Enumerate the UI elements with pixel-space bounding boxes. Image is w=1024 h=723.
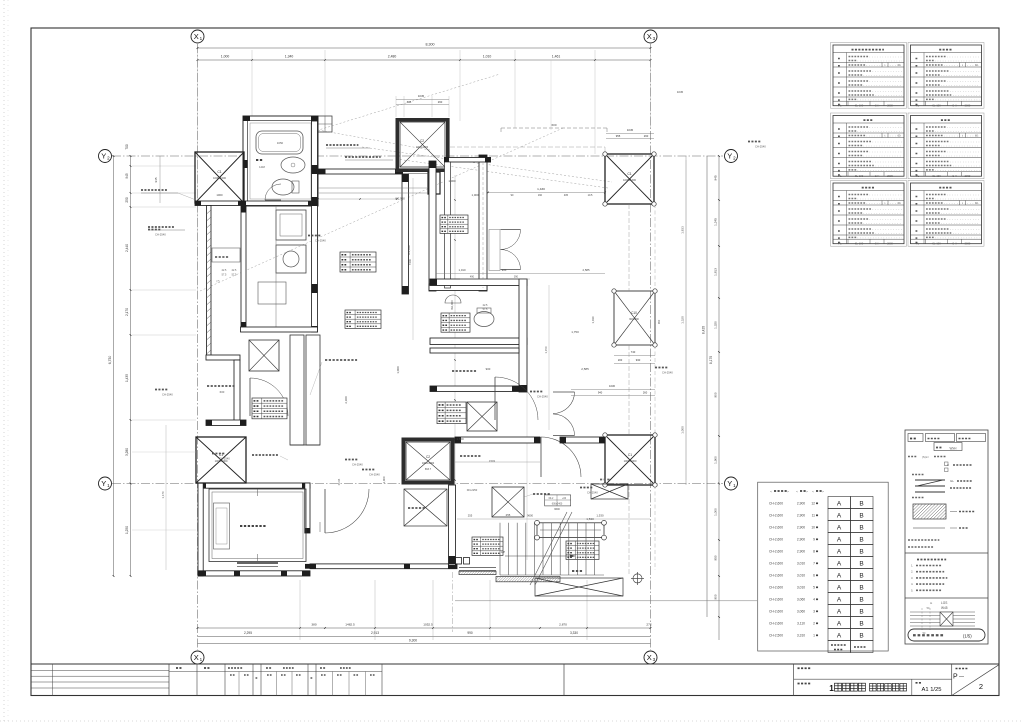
title block left revision rows xyxy=(31,669,169,671)
title block approval cells xyxy=(196,664,198,696)
C2 notch below xyxy=(428,172,440,194)
svg-text:57.5: 57.5 xyxy=(222,274,227,277)
vestibule double door xyxy=(501,230,521,250)
extension lines left lower xyxy=(132,451,196,453)
toilet room label box xyxy=(441,313,470,332)
svg-text:1,750: 1,750 xyxy=(571,330,579,334)
EV label xyxy=(240,525,266,527)
inspection hatch near counter xyxy=(249,340,279,371)
svg-text:A: A xyxy=(837,573,842,580)
svg-text:10.5: 10.5 xyxy=(588,194,593,197)
svg-text:SL-100: SL-100 xyxy=(932,242,941,246)
svg-text:1482.5: 1482.5 xyxy=(345,623,355,627)
corridor right wall upper xyxy=(402,174,409,294)
dimension below C10 xyxy=(614,355,655,357)
linen room walls xyxy=(430,348,519,353)
title block divider xyxy=(563,664,565,696)
hall inspection hatch bottom xyxy=(492,487,524,517)
eaves dashed line top right xyxy=(501,127,607,129)
svg-text:UP: UP xyxy=(501,550,505,554)
svg-text:Y: Y xyxy=(101,152,106,161)
svg-text:3,010: 3,010 xyxy=(797,586,805,590)
svg-text:1,340: 1,340 xyxy=(285,55,294,59)
stair treads xyxy=(499,523,501,575)
dimension line above toilet room xyxy=(436,273,605,275)
interior vertical dim x455 xyxy=(454,175,456,520)
finish schedule table office xyxy=(831,113,907,179)
svg-text:>: > xyxy=(787,490,789,494)
floor height table frame xyxy=(758,482,889,651)
svg-text:900: 900 xyxy=(502,268,507,272)
interior dim line hall xyxy=(455,461,540,463)
svg-text:CH-2,600: CH-2,600 xyxy=(769,622,783,626)
svg-text:C-H: C-H xyxy=(952,174,957,178)
svg-text:1,250: 1,250 xyxy=(125,526,129,534)
svg-text:3: 3 xyxy=(813,610,815,614)
svg-text:LGS: LGS xyxy=(941,601,947,605)
bathtub xyxy=(256,131,303,154)
svg-text:C2: C2 xyxy=(426,455,430,459)
ceiling height note xyxy=(212,453,225,455)
pump crossed box upper xyxy=(591,484,628,499)
kitchen step wall horizontal xyxy=(206,355,240,360)
ceiling height note xyxy=(148,229,161,231)
left inner dim line x166 xyxy=(165,425,167,570)
svg-text:B: B xyxy=(859,609,863,616)
svg-text:1.: 1. xyxy=(911,564,914,568)
svg-text:7: 7 xyxy=(813,562,815,566)
svg-text:SL-100: SL-100 xyxy=(855,174,864,178)
right inner dimension line xyxy=(685,156,687,485)
leader diagonal dotted lines upper area xyxy=(244,74,500,153)
svg-text:900: 900 xyxy=(486,367,491,371)
kitchen inner partition wall xyxy=(241,206,246,331)
svg-text:X: X xyxy=(647,653,652,662)
svg-text:X: X xyxy=(194,32,199,41)
svg-text:B: B xyxy=(859,549,863,556)
svg-text:260: 260 xyxy=(438,100,443,104)
svg-text:3,310: 3,310 xyxy=(797,634,805,638)
legend divider 1 xyxy=(905,552,988,554)
svg-text:CH-2,600: CH-2,600 xyxy=(769,526,783,530)
svg-text:1650: 1650 xyxy=(277,141,284,145)
grid bubble X3 bottom xyxy=(644,651,657,664)
washbasin xyxy=(281,157,305,173)
svg-text:A: A xyxy=(837,585,842,592)
svg-text:CH-2540: CH-2540 xyxy=(587,491,598,495)
svg-text:2,870: 2,870 xyxy=(559,623,567,627)
svg-text:A: A xyxy=(837,513,842,520)
svg-text:8,300: 8,300 xyxy=(426,43,435,47)
svg-text:2,480: 2,480 xyxy=(388,55,397,59)
title block right section xyxy=(793,664,795,696)
svg-text:A: A xyxy=(837,549,842,556)
svg-text:B: B xyxy=(859,513,863,520)
svg-text:8,420: 8,420 xyxy=(702,326,706,334)
grid bubble Y2 left xyxy=(99,150,112,163)
unit bath room walls xyxy=(243,116,318,206)
svg-text:>: > xyxy=(822,490,824,494)
finish schedule table entrance xyxy=(831,43,907,109)
extension lines from left dims xyxy=(132,165,196,167)
svg-text:1,900: 1,900 xyxy=(714,456,718,464)
svg-text:A: A xyxy=(837,501,842,508)
svg-text:663.7: 663.7 xyxy=(425,468,432,471)
svg-text:1000x1600: 1000x1600 xyxy=(623,178,636,182)
EV shaft walls xyxy=(198,483,310,488)
washroom crossed box xyxy=(404,489,447,526)
svg-text:3,060: 3,060 xyxy=(797,598,805,602)
floor table AB grid xyxy=(828,497,851,509)
bottom second dimension line xyxy=(198,636,651,638)
kitchen lower cabinet xyxy=(258,282,286,304)
linen lower label xyxy=(460,455,481,457)
svg-text:945: 945 xyxy=(125,173,129,179)
svg-text:255: 255 xyxy=(468,514,473,518)
left sub dimension line xyxy=(159,156,161,203)
svg-text:>: > xyxy=(806,490,808,494)
svg-text:(S)L=: (S)L= xyxy=(922,455,929,459)
top segment dimension line xyxy=(198,59,651,61)
svg-text:57.5: 57.5 xyxy=(232,274,237,277)
entrance door jamb blocks xyxy=(456,558,462,565)
svg-text:1503: 1503 xyxy=(489,459,495,463)
bottom overall dimension 9,300 xyxy=(198,643,651,645)
svg-text:2.: 2. xyxy=(911,570,914,574)
column C2 top xyxy=(396,118,450,122)
svg-text:5.: 5. xyxy=(911,588,914,592)
unit bath interior outline xyxy=(250,123,311,199)
svg-text:C-H: C-H xyxy=(952,104,957,108)
dimension 1,430 between vestibule and C1 xyxy=(488,192,605,194)
kitchen step wall vertical xyxy=(234,360,240,423)
svg-text:3,280: 3,280 xyxy=(125,448,129,456)
svg-text:1,435: 1,435 xyxy=(125,374,129,382)
grid bubble X1 top xyxy=(191,30,204,43)
left overall dimension 6,730 xyxy=(113,156,115,576)
entrance sill lines xyxy=(459,567,496,569)
svg-text:+00: +00 xyxy=(562,497,567,500)
svg-text:405: 405 xyxy=(564,194,569,197)
svg-text:3,010: 3,010 xyxy=(797,562,805,566)
toilet room walls xyxy=(430,279,527,286)
svg-text:2,585: 2,585 xyxy=(581,367,589,371)
svg-text:C10: C10 xyxy=(631,311,637,315)
svg-text:1,010: 1,010 xyxy=(459,268,466,272)
svg-text:8: 8 xyxy=(813,550,815,554)
svg-text:B: B xyxy=(859,537,863,544)
finish schedule table linen xyxy=(908,43,984,109)
bottom interior dim line xyxy=(457,518,650,520)
svg-text:2000: 2000 xyxy=(965,104,971,108)
dimension above C2 xyxy=(396,99,449,101)
svg-text:1,320: 1,320 xyxy=(714,321,718,329)
linen room lower walls xyxy=(455,437,540,443)
svg-text:B: B xyxy=(859,573,863,580)
svg-text:CH-2540: CH-2540 xyxy=(162,393,173,397)
vent note left xyxy=(148,226,174,228)
svg-text:5: 5 xyxy=(813,586,815,590)
grid line X1 xyxy=(197,44,199,650)
sink note xyxy=(345,156,381,158)
wall centerline extension down xyxy=(452,572,454,632)
svg-text:A: A xyxy=(837,525,842,532)
svg-text:695: 695 xyxy=(407,100,412,104)
svg-text:2,295: 2,295 xyxy=(244,631,252,635)
top overall dimension 8,300 xyxy=(198,47,651,49)
svg-text:260: 260 xyxy=(644,134,649,138)
svg-text:CH-2540: CH-2540 xyxy=(755,145,766,149)
legend single line sample xyxy=(913,527,945,529)
svg-text:2,900: 2,900 xyxy=(797,526,805,530)
dimension extension lines top xyxy=(197,50,199,290)
svg-text:1,000: 1,000 xyxy=(448,179,456,183)
scale cell xyxy=(911,679,913,695)
svg-text:1,500: 1,500 xyxy=(456,437,464,441)
ceiling height note xyxy=(748,141,761,143)
monkey note xyxy=(326,144,358,146)
svg-text:1000: 1000 xyxy=(216,193,223,197)
dimension above C1 top-right xyxy=(606,133,654,135)
linen room label xyxy=(452,370,476,372)
svg-text:1,030: 1,030 xyxy=(591,316,595,323)
svg-text:CH-2540: CH-2540 xyxy=(315,239,326,243)
back counter label xyxy=(207,385,235,387)
svg-text:740: 740 xyxy=(631,350,636,354)
svg-text:CH-2,600: CH-2,600 xyxy=(769,502,783,506)
EV center lines xyxy=(257,489,259,496)
svg-text:CH-2540: CH-2540 xyxy=(155,233,166,237)
svg-text:700: 700 xyxy=(125,144,129,150)
svg-text:390: 390 xyxy=(514,276,519,279)
wall below C2 bottom right xyxy=(449,485,456,565)
svg-text:1,000: 1,000 xyxy=(714,508,718,516)
svg-text:600x2400: 600x2400 xyxy=(552,503,563,506)
svg-text:600: 600 xyxy=(551,123,556,127)
svg-text:1000x1000: 1000x1000 xyxy=(416,146,429,149)
svg-text:CH-2,600: CH-2,600 xyxy=(769,550,783,554)
svg-text:930: 930 xyxy=(636,358,641,362)
label box entrance xyxy=(472,537,503,555)
svg-text:B: B xyxy=(859,597,863,604)
grid line Y2 xyxy=(112,155,723,157)
svg-text:490: 490 xyxy=(470,276,475,279)
survey marker xyxy=(631,572,644,585)
ceiling height note xyxy=(155,389,168,391)
wall cavity dashed line xyxy=(482,162,484,288)
svg-text:GL: GL xyxy=(950,479,954,483)
drawing number cell xyxy=(951,664,953,696)
entrance porch hatch xyxy=(496,577,560,582)
svg-text:W1,800: W1,800 xyxy=(407,245,411,255)
svg-text:22.5: 22.5 xyxy=(222,269,227,272)
svg-text:1418: 1418 xyxy=(259,165,265,169)
svg-text:C1: C1 xyxy=(627,172,631,176)
exterior column line connections xyxy=(628,204,630,291)
svg-text:1000x1000: 1000x1000 xyxy=(213,176,226,180)
svg-text:A: A xyxy=(837,537,842,544)
svg-text:CH-2,600: CH-2,600 xyxy=(769,538,783,542)
svg-text:2,900: 2,900 xyxy=(797,538,805,542)
svg-text:1,430: 1,430 xyxy=(537,187,545,191)
svg-text:9600: 9600 xyxy=(527,514,533,518)
svg-text:1: 1 xyxy=(813,634,815,638)
svg-text:1,000: 1,000 xyxy=(221,55,230,59)
hall door arc mid xyxy=(495,377,538,420)
svg-text:2,585: 2,585 xyxy=(583,268,590,272)
svg-text:2000: 2000 xyxy=(965,174,971,178)
EV device box xyxy=(214,503,230,549)
svg-text:Y: Y xyxy=(727,152,732,161)
svg-text:C-H: C-H xyxy=(875,174,880,178)
stair handrail xyxy=(537,523,604,538)
grid line X3 xyxy=(650,44,652,650)
stair up arrow xyxy=(505,555,575,557)
grid line Y1 xyxy=(112,483,723,485)
svg-text:1,000: 1,000 xyxy=(472,193,479,197)
door arc lower center xyxy=(541,437,581,477)
legend required substrate notes xyxy=(917,559,946,561)
hatch bottom label xyxy=(533,493,550,495)
partition detail title capsule xyxy=(908,629,985,641)
label box kitchen xyxy=(340,252,376,272)
svg-text:4: 4 xyxy=(813,598,815,602)
svg-text:Y: Y xyxy=(101,479,106,488)
svg-text:A: A xyxy=(837,609,842,616)
EV door xyxy=(237,562,278,564)
vestibule door pocket xyxy=(489,230,500,271)
duct box right of UB xyxy=(318,116,332,132)
svg-text:SL-100: SL-100 xyxy=(855,104,864,108)
svg-text:2000: 2000 xyxy=(887,242,893,246)
entrance hall south wall xyxy=(310,564,457,569)
svg-text:945: 945 xyxy=(714,175,718,180)
svg-text:3,060: 3,060 xyxy=(797,610,805,614)
svg-text:3,330: 3,330 xyxy=(570,631,578,635)
svg-text:C-H: C-H xyxy=(952,242,957,246)
ground line below stairs xyxy=(455,600,757,602)
finish schedule table cloak xyxy=(908,181,984,247)
svg-text:CH-2,600: CH-2,600 xyxy=(769,610,783,614)
svg-text:<: < xyxy=(812,490,814,494)
grid bubble Y1 left xyxy=(99,477,112,490)
svg-text:CH-2540: CH-2540 xyxy=(369,473,380,477)
svg-text:1052.5: 1052.5 xyxy=(423,623,433,627)
interior vertical dim x549 xyxy=(548,285,550,430)
front counter label xyxy=(325,359,357,361)
svg-text:C1: C1 xyxy=(217,170,221,174)
column C1 top-left xyxy=(195,152,244,203)
svg-text:01.95: 01.95 xyxy=(337,478,341,485)
svg-text:1,530: 1,530 xyxy=(596,514,604,518)
legend notes small xyxy=(908,539,939,541)
kitchen bottom area wall xyxy=(241,327,318,332)
wall below C1 top-left xyxy=(195,201,318,206)
svg-text:990: 990 xyxy=(467,631,473,635)
misc thin verticals right zone xyxy=(685,160,687,480)
finish schedule table piloti xyxy=(831,181,907,247)
svg-text:1,000: 1,000 xyxy=(681,426,685,434)
svg-text:P: P xyxy=(953,674,958,681)
svg-text:160: 160 xyxy=(538,194,543,197)
svg-text:A: A xyxy=(837,597,842,604)
svg-text:940: 940 xyxy=(598,391,603,395)
legend note line xyxy=(908,456,917,458)
svg-text:1,530: 1,530 xyxy=(586,517,594,521)
svg-text:CH-2,600: CH-2,600 xyxy=(769,574,783,578)
svg-text:CH-2,600: CH-2,600 xyxy=(769,586,783,590)
svg-text:11: 11 xyxy=(812,514,816,518)
svg-text:1045: 1045 xyxy=(418,94,425,98)
ceiling height note xyxy=(530,391,543,393)
svg-text:2000: 2000 xyxy=(887,174,893,178)
svg-text:CH-2540: CH-2540 xyxy=(537,395,548,399)
svg-text:—: — xyxy=(959,674,964,680)
svg-text:3.: 3. xyxy=(911,576,914,580)
scan edge artifact left xyxy=(3,0,5,723)
air-conditioner niche xyxy=(212,248,240,262)
svg-text:2: 2 xyxy=(813,622,815,626)
hall hatch label box xyxy=(437,402,466,424)
svg-text:1,833: 1,833 xyxy=(681,226,685,234)
column C1 bottom-right xyxy=(605,435,655,485)
column C10 right xyxy=(614,291,655,345)
svg-text:1045: 1045 xyxy=(677,90,684,94)
svg-text:B: B xyxy=(859,525,863,532)
column C1 bottom-left xyxy=(196,437,246,483)
dimension extension lines bottom xyxy=(299,580,301,640)
svg-text:960: 960 xyxy=(657,319,661,324)
svg-text:260: 260 xyxy=(643,391,648,395)
column C1 top-right xyxy=(605,154,654,204)
svg-text:950: 950 xyxy=(714,555,718,560)
svg-text:C2: C2 xyxy=(420,139,424,143)
entrance double door arcs xyxy=(553,392,575,414)
svg-text:12: 12 xyxy=(811,502,815,506)
svg-text:380: 380 xyxy=(311,623,316,627)
hall inspection hatch C xyxy=(467,402,497,431)
fire extinguisher label xyxy=(252,454,278,456)
svg-text:X: X xyxy=(194,653,199,662)
svg-text:1000x1000: 1000x1000 xyxy=(624,459,637,463)
kitchen counter sink boxes xyxy=(276,210,306,240)
svg-text:9: 9 xyxy=(813,538,815,542)
svg-text:CH-2,500: CH-2,500 xyxy=(769,634,783,638)
svg-text:1,320: 1,320 xyxy=(681,316,685,324)
svg-text:1,000: 1,000 xyxy=(382,476,386,483)
svg-text:WxH: WxH xyxy=(950,447,958,451)
svg-text:2,900: 2,900 xyxy=(797,502,805,506)
svg-text:6,730: 6,730 xyxy=(108,356,112,365)
svg-text:1,813: 1,813 xyxy=(714,268,718,276)
svg-text:B: B xyxy=(859,621,863,628)
grating crossed box bottom xyxy=(535,578,623,596)
svg-text:8,170: 8,170 xyxy=(709,356,713,364)
kitchen left outer wall xyxy=(207,206,212,359)
finish schedule table toilet xyxy=(908,113,984,179)
front counter xyxy=(290,335,304,445)
label box near EV entrance xyxy=(252,398,287,419)
svg-text:945: 945 xyxy=(154,177,158,182)
top room label box xyxy=(440,215,468,233)
right overall dimensions 8,420 8,170 xyxy=(706,156,708,617)
svg-text:250: 250 xyxy=(125,197,129,203)
svg-text:B: B xyxy=(859,633,863,640)
grid bubble Y2 right xyxy=(725,150,738,163)
svg-text:CH-2540: CH-2540 xyxy=(219,457,230,461)
svg-text:A1 1/25: A1 1/25 xyxy=(922,687,942,693)
interior dim line corridor top xyxy=(318,198,397,200)
